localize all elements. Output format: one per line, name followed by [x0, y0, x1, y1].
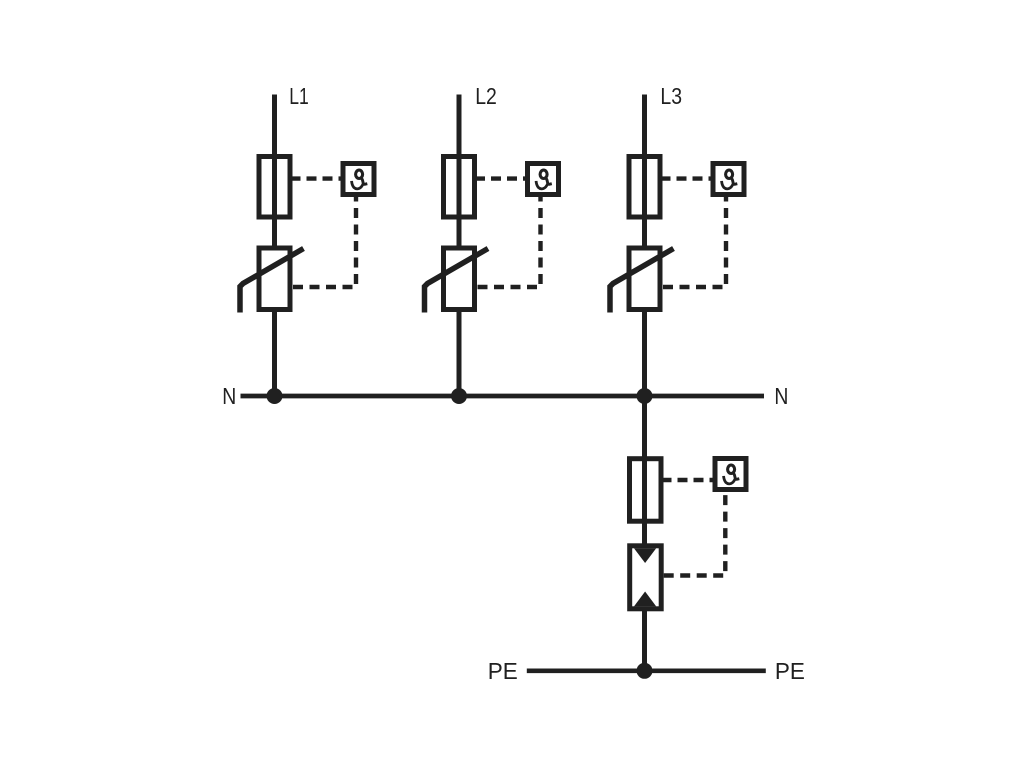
varistor RV1 diagonal stroke [240, 249, 304, 313]
wire L1 vertical [272, 95, 277, 397]
svg-text:PE: PE [775, 658, 805, 684]
varistor RV1 body [259, 248, 290, 310]
dashed link spark gap to thermal monitor (L-corner) [664, 492, 726, 576]
junction node L3/N [637, 388, 653, 404]
svg-text:PE: PE [488, 658, 518, 684]
dashed link F2 to thermal monitor [477, 176, 525, 180]
svg-text:L2: L2 [475, 83, 497, 109]
svg-text:N: N [774, 383, 788, 409]
thermal monitor T1 [343, 164, 374, 195]
wire L2 vertical [457, 95, 462, 397]
junction node N-PE/PE [637, 663, 653, 679]
wire N to PE vertical [642, 396, 647, 671]
spark gap GDT body [630, 546, 662, 609]
dashed link F1 to thermal monitor [293, 176, 341, 180]
wire N bus horizontal [241, 394, 765, 399]
dashed link varistor to thermal monitor (L-corner) [478, 197, 541, 287]
thermal monitor T2 [528, 164, 559, 195]
dashed link F3 to thermal monitor [663, 176, 711, 180]
wire PE bus horizontal [527, 668, 766, 673]
varistor RV2 body [444, 248, 475, 310]
thermal monitor T4 [715, 459, 746, 490]
spark gap top electrode arrow [634, 548, 656, 563]
dashed link varistor to thermal monitor (L-corner) [293, 197, 356, 287]
fuse F2 (disconnector) [444, 157, 475, 218]
wire L3 vertical [642, 95, 647, 397]
dashed link F4 to thermal monitor [664, 478, 713, 482]
dashed link varistor to thermal monitor (L-corner) [663, 197, 726, 287]
junction node L2/N [451, 388, 467, 404]
varistor RV3 diagonal stroke [610, 249, 674, 313]
svg-text:L3: L3 [660, 83, 682, 109]
spark gap bottom electrode arrow [634, 592, 656, 607]
fuse F3 (disconnector) [629, 157, 660, 218]
thermal monitor T3 [713, 164, 744, 195]
junction node L1/N [267, 388, 283, 404]
svg-text:N: N [222, 383, 236, 409]
svg-text:L1: L1 [289, 83, 309, 109]
varistor RV3 body [629, 248, 660, 310]
fuse F1 (disconnector) [259, 157, 290, 218]
varistor RV2 diagonal stroke [425, 249, 489, 313]
fuse F4 (N-PE disconnector) [630, 459, 662, 522]
